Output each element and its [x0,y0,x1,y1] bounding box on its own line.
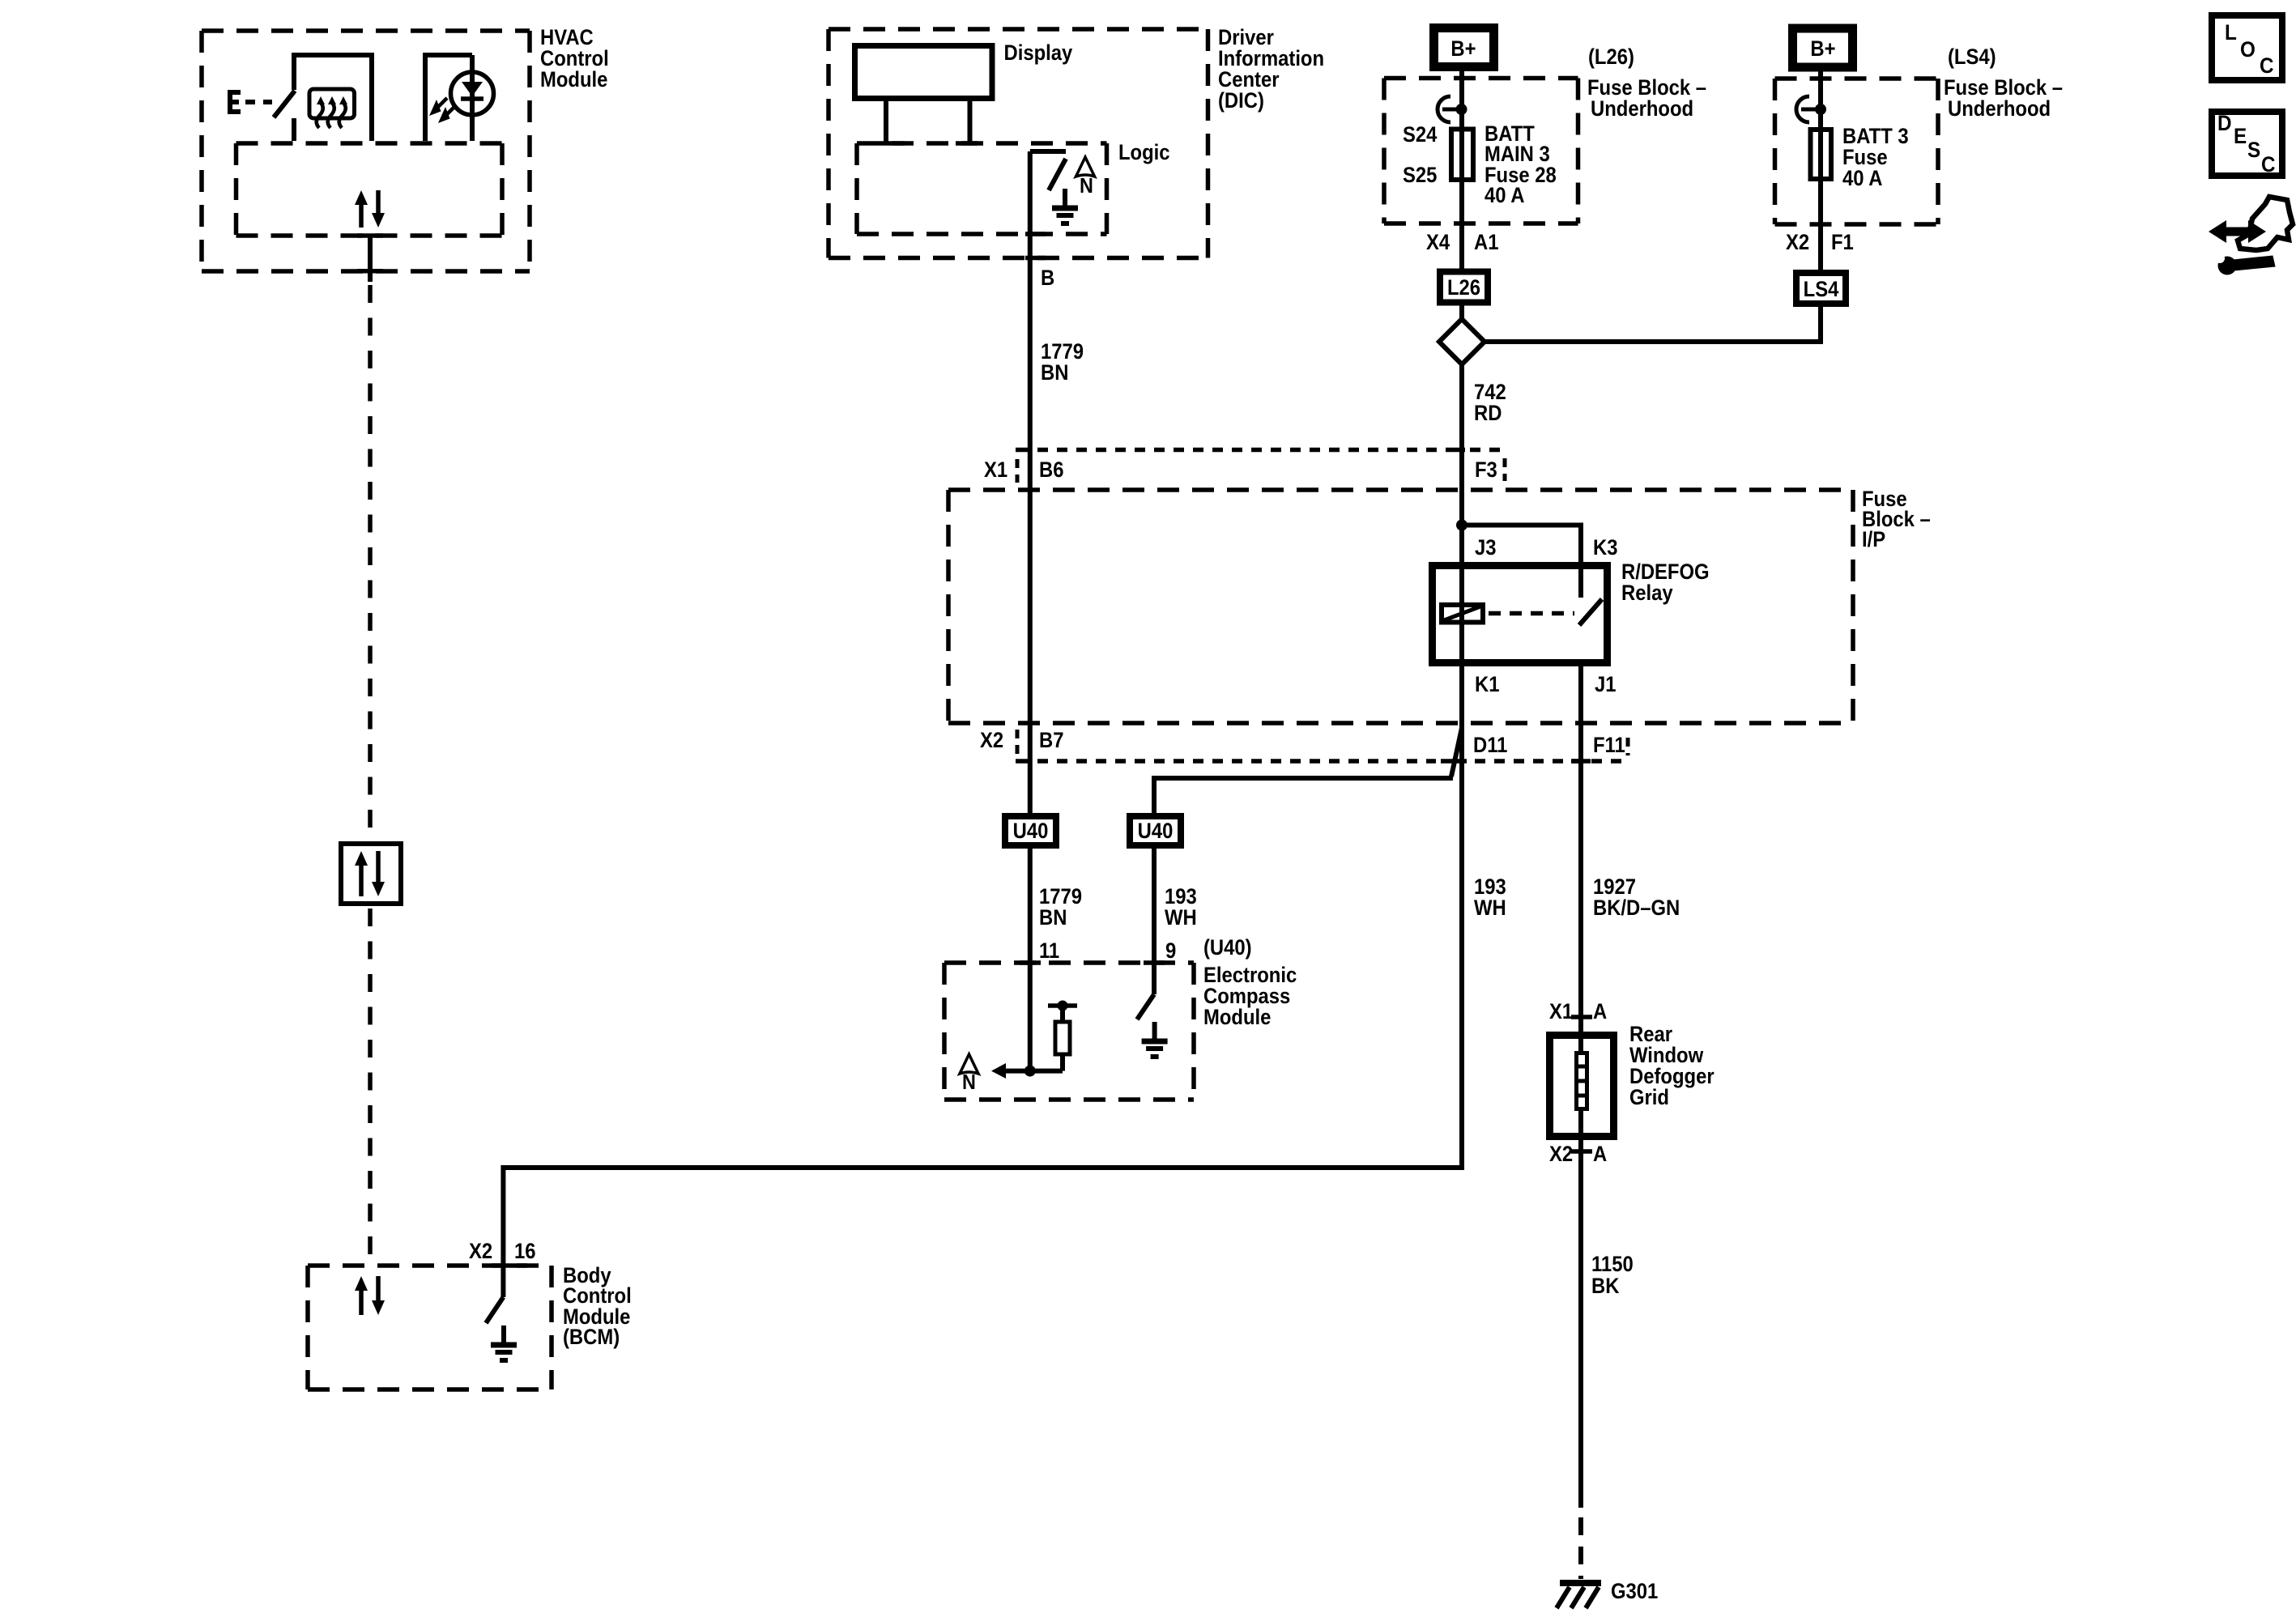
indicator LED wire [470,55,475,141]
pin 11 label [1039,939,1059,963]
fuse label LS4 [1842,125,1909,190]
tick at B7 [1016,759,1032,764]
label X1 (grid) [1549,1000,1573,1023]
jog D11 to compass branch [1451,728,1462,777]
svg-text:BK: BK [1591,1274,1619,1298]
svg-text:X4: X4 [1426,231,1450,254]
BCM label [563,1264,632,1349]
wire L26 to splice [1459,306,1464,320]
wire 1150 BK [1578,1140,1583,1508]
junction dot J3 branch [1456,520,1467,531]
splice diamond [1439,319,1485,364]
HVAC serial-data arrows [355,190,385,228]
tick at F11 [1571,759,1591,764]
rear window defogger grid box [1550,1036,1614,1137]
svg-text:C: C [2260,54,2274,78]
adjust icon double arrow [2209,220,2266,243]
connector U40 right [1130,816,1181,845]
fuse label L26 [1485,122,1557,207]
grid element [1577,1053,1587,1109]
svg-text:(U40): (U40) [1203,936,1252,960]
adjust icon glove outline [2238,197,2293,250]
svg-text:(DIC): (DIC) [1218,89,1264,113]
compass resistor top bar [1048,1001,1077,1011]
wire label 742 RD [1474,381,1506,425]
svg-text:S24: S24 [1403,123,1437,147]
svg-text:BK/D–GN: BK/D–GN [1593,896,1680,920]
label B7 [1039,729,1063,752]
BCM top tick [492,1263,527,1268]
label (LS4) [1948,45,1996,69]
wire 742 RD [1459,364,1464,666]
indicator LED circle [451,72,494,115]
wire label 1150 BK [1591,1253,1634,1298]
label K3 [1593,536,1617,560]
label X2 (BCM) [469,1240,492,1263]
connector L26 [1440,272,1488,303]
compass resistor lead top [1060,1006,1065,1022]
label B6 [1039,458,1063,482]
fuse block I/P label [1862,487,1931,551]
svg-text:J1: J1 [1595,673,1617,696]
svg-text:F11: F11 [1593,734,1625,757]
wire LS4 to splice [1485,307,1821,342]
svg-text:A1: A1 [1474,231,1498,254]
tick at D11 [1441,759,1467,764]
fuse block I/P (dashed box) [948,490,1853,723]
wire B+ to L26 connector [1459,71,1464,269]
connector U40 left [1005,816,1056,845]
serial data wire (dashed) HVAC to data-link box [368,285,373,841]
fuse block underhood L26 (dashed box) [1384,79,1578,224]
fuse block underhood label LS4 [1944,76,2063,121]
svg-text:WH: WH [1474,896,1506,920]
fuse BATT MAIN 3 [1451,130,1473,181]
DIC outline (dashed box) [829,29,1208,258]
wire label 193 WH compass [1165,885,1197,930]
svg-text:RD: RD [1474,402,1502,425]
adjust icon wrench [2215,253,2275,275]
LOC legend box [2212,15,2282,80]
label A1 [1474,231,1498,254]
svg-text:E: E [2234,125,2247,148]
compass ground [1142,1022,1168,1057]
svg-text:K1: K1 [1475,673,1499,696]
svg-text:1150: 1150 [1591,1253,1634,1276]
ground G301 symbol [1557,1583,1601,1608]
label X4 [1426,231,1450,254]
label F11 [1593,734,1625,757]
fuse block underhood LS4 (dashed box) [1775,79,1939,224]
svg-text:9: 9 [1165,939,1176,963]
serial data link arrows [355,851,385,896]
wire 1779 BN lower [1028,849,1033,1071]
relay coil box [1442,605,1483,623]
DESC legend box [2212,112,2282,177]
logic box bottom tick [1025,232,1046,236]
wire 193 WH relay to BCM [503,666,1462,1297]
svg-text:X2: X2 [1549,1143,1573,1166]
logic N direction symbol [1076,157,1095,198]
svg-text:B: B [1041,266,1054,290]
BCM switch blade [486,1297,503,1323]
heater wavy arrow 2 [328,96,336,128]
svg-text:Relay: Relay [1621,581,1673,605]
wire 1927 BK/D-GN [1578,666,1583,1051]
svg-text:B+: B+ [1810,37,1835,61]
label X2 (I/P) [980,729,1003,752]
rear-window heater icon box [309,89,355,118]
pin 11 tick [1020,960,1041,965]
compass resistor lead bottom [1060,1054,1065,1071]
F3 right dotted tick [1503,458,1507,481]
label X2 (LS4) [1786,231,1809,254]
svg-text:LS4: LS4 [1804,278,1839,301]
LED diode triangle [462,82,483,96]
body control module (dashed box) [308,1266,552,1389]
grid X1 tick [1571,1015,1592,1019]
svg-text:S25: S25 [1403,164,1437,187]
svg-text:I/P: I/P [1862,528,1885,551]
label F1 [1831,231,1854,254]
label K1 [1475,673,1499,696]
defog heater frame (open box) [294,55,372,141]
label D11 [1473,734,1507,757]
B+ terminal LS4 [1793,28,1853,67]
relay label [1621,560,1710,605]
heater wavy arrow 3 [339,96,347,128]
relay coil-contact dashed link [1489,611,1574,616]
LED cathode bar [461,96,483,101]
DIC logic box (dashed) [857,143,1107,234]
svg-text:(BCM): (BCM) [563,1326,620,1349]
B+ terminal L26 [1434,28,1494,67]
svg-text:40 A: 40 A [1842,167,1882,190]
serial data link box [341,844,401,904]
wire 193 WH compass [1152,849,1157,994]
svg-text:O: O [2240,38,2256,62]
svg-text:X1: X1 [1549,1000,1573,1023]
svg-text:Underhood: Underhood [1591,97,1693,121]
svg-text:X2: X2 [980,729,1003,752]
wire 1150 dashed to ground [1578,1517,1583,1579]
svg-text:40 A: 40 A [1485,184,1524,207]
display label [1004,41,1073,65]
wire label 1779 BN upper [1041,340,1084,385]
junction dot breaker L26 [1456,104,1467,115]
label (U40) [1203,936,1252,960]
label X2 (grid) [1549,1143,1573,1166]
svg-text:G301: G301 [1611,1580,1658,1603]
logic switch [1030,151,1066,190]
grid X2 tick [1571,1149,1592,1154]
label (L26) [1588,45,1634,69]
serial data wire (dashed) box to BCM [368,908,373,1263]
compass junction wire and arrow [991,1063,1063,1079]
relay switch blade [1579,599,1602,625]
compass N symbol [960,1054,978,1094]
svg-text:(L26): (L26) [1588,45,1634,69]
tick at F3 [1449,448,1465,453]
R/DEFOG relay box [1433,566,1608,663]
DIC label [1218,26,1324,113]
svg-text:D: D [2217,112,2232,135]
wire branch to compass U40 [1154,778,1453,813]
wire label 193 WH (right) [1474,875,1506,920]
svg-text:Grid: Grid [1629,1086,1669,1109]
grid element wire [1578,1035,1583,1136]
pin B label [1041,266,1054,290]
breaker arc L26 [1438,96,1462,122]
svg-text:N: N [962,1071,976,1094]
compass module label [1203,964,1297,1029]
compass switch blade [1137,994,1154,1019]
svg-text:J3: J3 [1475,536,1497,560]
label S25 [1403,164,1437,187]
svg-text:N: N [1080,175,1093,198]
BCM serial arrows [355,1276,385,1315]
defog switch blade [274,91,295,117]
HVAC Control Module outline (dashed box) [202,31,530,271]
display leg left [879,101,905,143]
svg-text:Module: Module [1203,1006,1271,1029]
svg-text:F1: F1 [1831,231,1854,254]
label G301 [1611,1580,1658,1603]
wire B+ to LS4 connector [1818,71,1823,270]
label 16 [514,1240,536,1263]
svg-text:X2: X2 [469,1240,492,1263]
display leg right [956,101,978,143]
tick at B6 [1016,448,1032,453]
junction dot breaker LS4 [1815,104,1826,115]
svg-text:BN: BN [1041,361,1068,385]
svg-text:B6: B6 [1039,458,1063,482]
breaker arc LS4 [1796,96,1821,122]
svg-text:F3: F3 [1475,458,1497,482]
BCM ground [491,1326,517,1360]
HVAC Control Module label [540,26,609,91]
HVAC wire stub below arrows [368,236,373,282]
wire to K3 [1462,526,1581,598]
pin 9 tick [1144,960,1165,965]
fuse BATT 3 [1811,130,1832,179]
compass resistor [1055,1022,1070,1054]
svg-text:WH: WH [1165,906,1197,930]
svg-text:Display: Display [1004,41,1073,65]
svg-text:A: A [1593,1143,1607,1166]
svg-text:A: A [1593,1000,1607,1023]
wire 1779 BN DIC to U40 [1028,151,1033,813]
svg-text:C: C [2261,153,2276,177]
compass junction dot [1024,1066,1036,1077]
heater wavy arrow 1 [317,96,325,128]
logic label [1118,141,1170,164]
label A (grid top) [1593,1000,1607,1023]
svg-text:Module: Module [540,68,607,91]
LED emission arrow 2 [429,98,447,116]
grid label [1629,1023,1715,1109]
HVAC outer box bottom tick [357,269,383,274]
label J1 [1595,673,1617,696]
svg-text:U40: U40 [1138,819,1174,843]
label A (grid bottom) [1593,1143,1607,1166]
defog switch dashed link [245,100,272,104]
indicator frame (open box) [425,55,472,141]
DIC display box [855,46,993,99]
defog switch terminal E [230,92,241,112]
svg-text:X1: X1 [984,458,1007,482]
svg-text:U40: U40 [1013,819,1049,843]
svg-text:Underhood: Underhood [1948,97,2051,121]
wire label 1927 [1593,875,1680,920]
label J3 [1475,536,1497,560]
svg-text:B+: B+ [1450,37,1476,61]
logic ground [1052,189,1078,223]
svg-text:11: 11 [1039,939,1059,963]
connector LS4 [1796,273,1846,304]
fuse block underhood label L26 [1587,76,1706,121]
svg-text:K3: K3 [1593,536,1617,560]
X2 separator (dotted) [1016,730,1020,754]
F11 right dotted tick [1626,738,1630,755]
svg-text:BN: BN [1039,906,1067,930]
svg-text:(LS4): (LS4) [1948,45,1996,69]
DIC box bottom tick [1025,256,1046,261]
connector row X1-B6-F3 (dotted) [1037,448,1508,453]
label X1 [984,458,1007,482]
svg-text:Logic: Logic [1118,141,1170,164]
relay coil diagonal [1444,606,1480,620]
wire label 1779 BN lower [1039,885,1082,930]
svg-text:L: L [2225,21,2237,45]
svg-text:16: 16 [514,1240,536,1263]
HVAC inner box bottom tick [357,233,383,238]
svg-text:B7: B7 [1039,729,1063,752]
svg-text:X2: X2 [1786,231,1809,254]
label F3 [1475,458,1497,482]
LED emission arrow 1 [438,105,456,123]
pin 9 label [1165,939,1176,963]
HVAC internal sub-box (dashed) [236,143,503,236]
X1 separator (dotted) [1016,459,1020,483]
label S24 [1403,123,1437,147]
connector row X2-B7-D11-F11 (dotted) [1037,759,1630,764]
svg-text:L26: L26 [1447,276,1480,300]
svg-text:D11: D11 [1473,734,1507,757]
electronic compass module (dashed box) [944,963,1194,1100]
svg-text:S: S [2247,138,2260,162]
